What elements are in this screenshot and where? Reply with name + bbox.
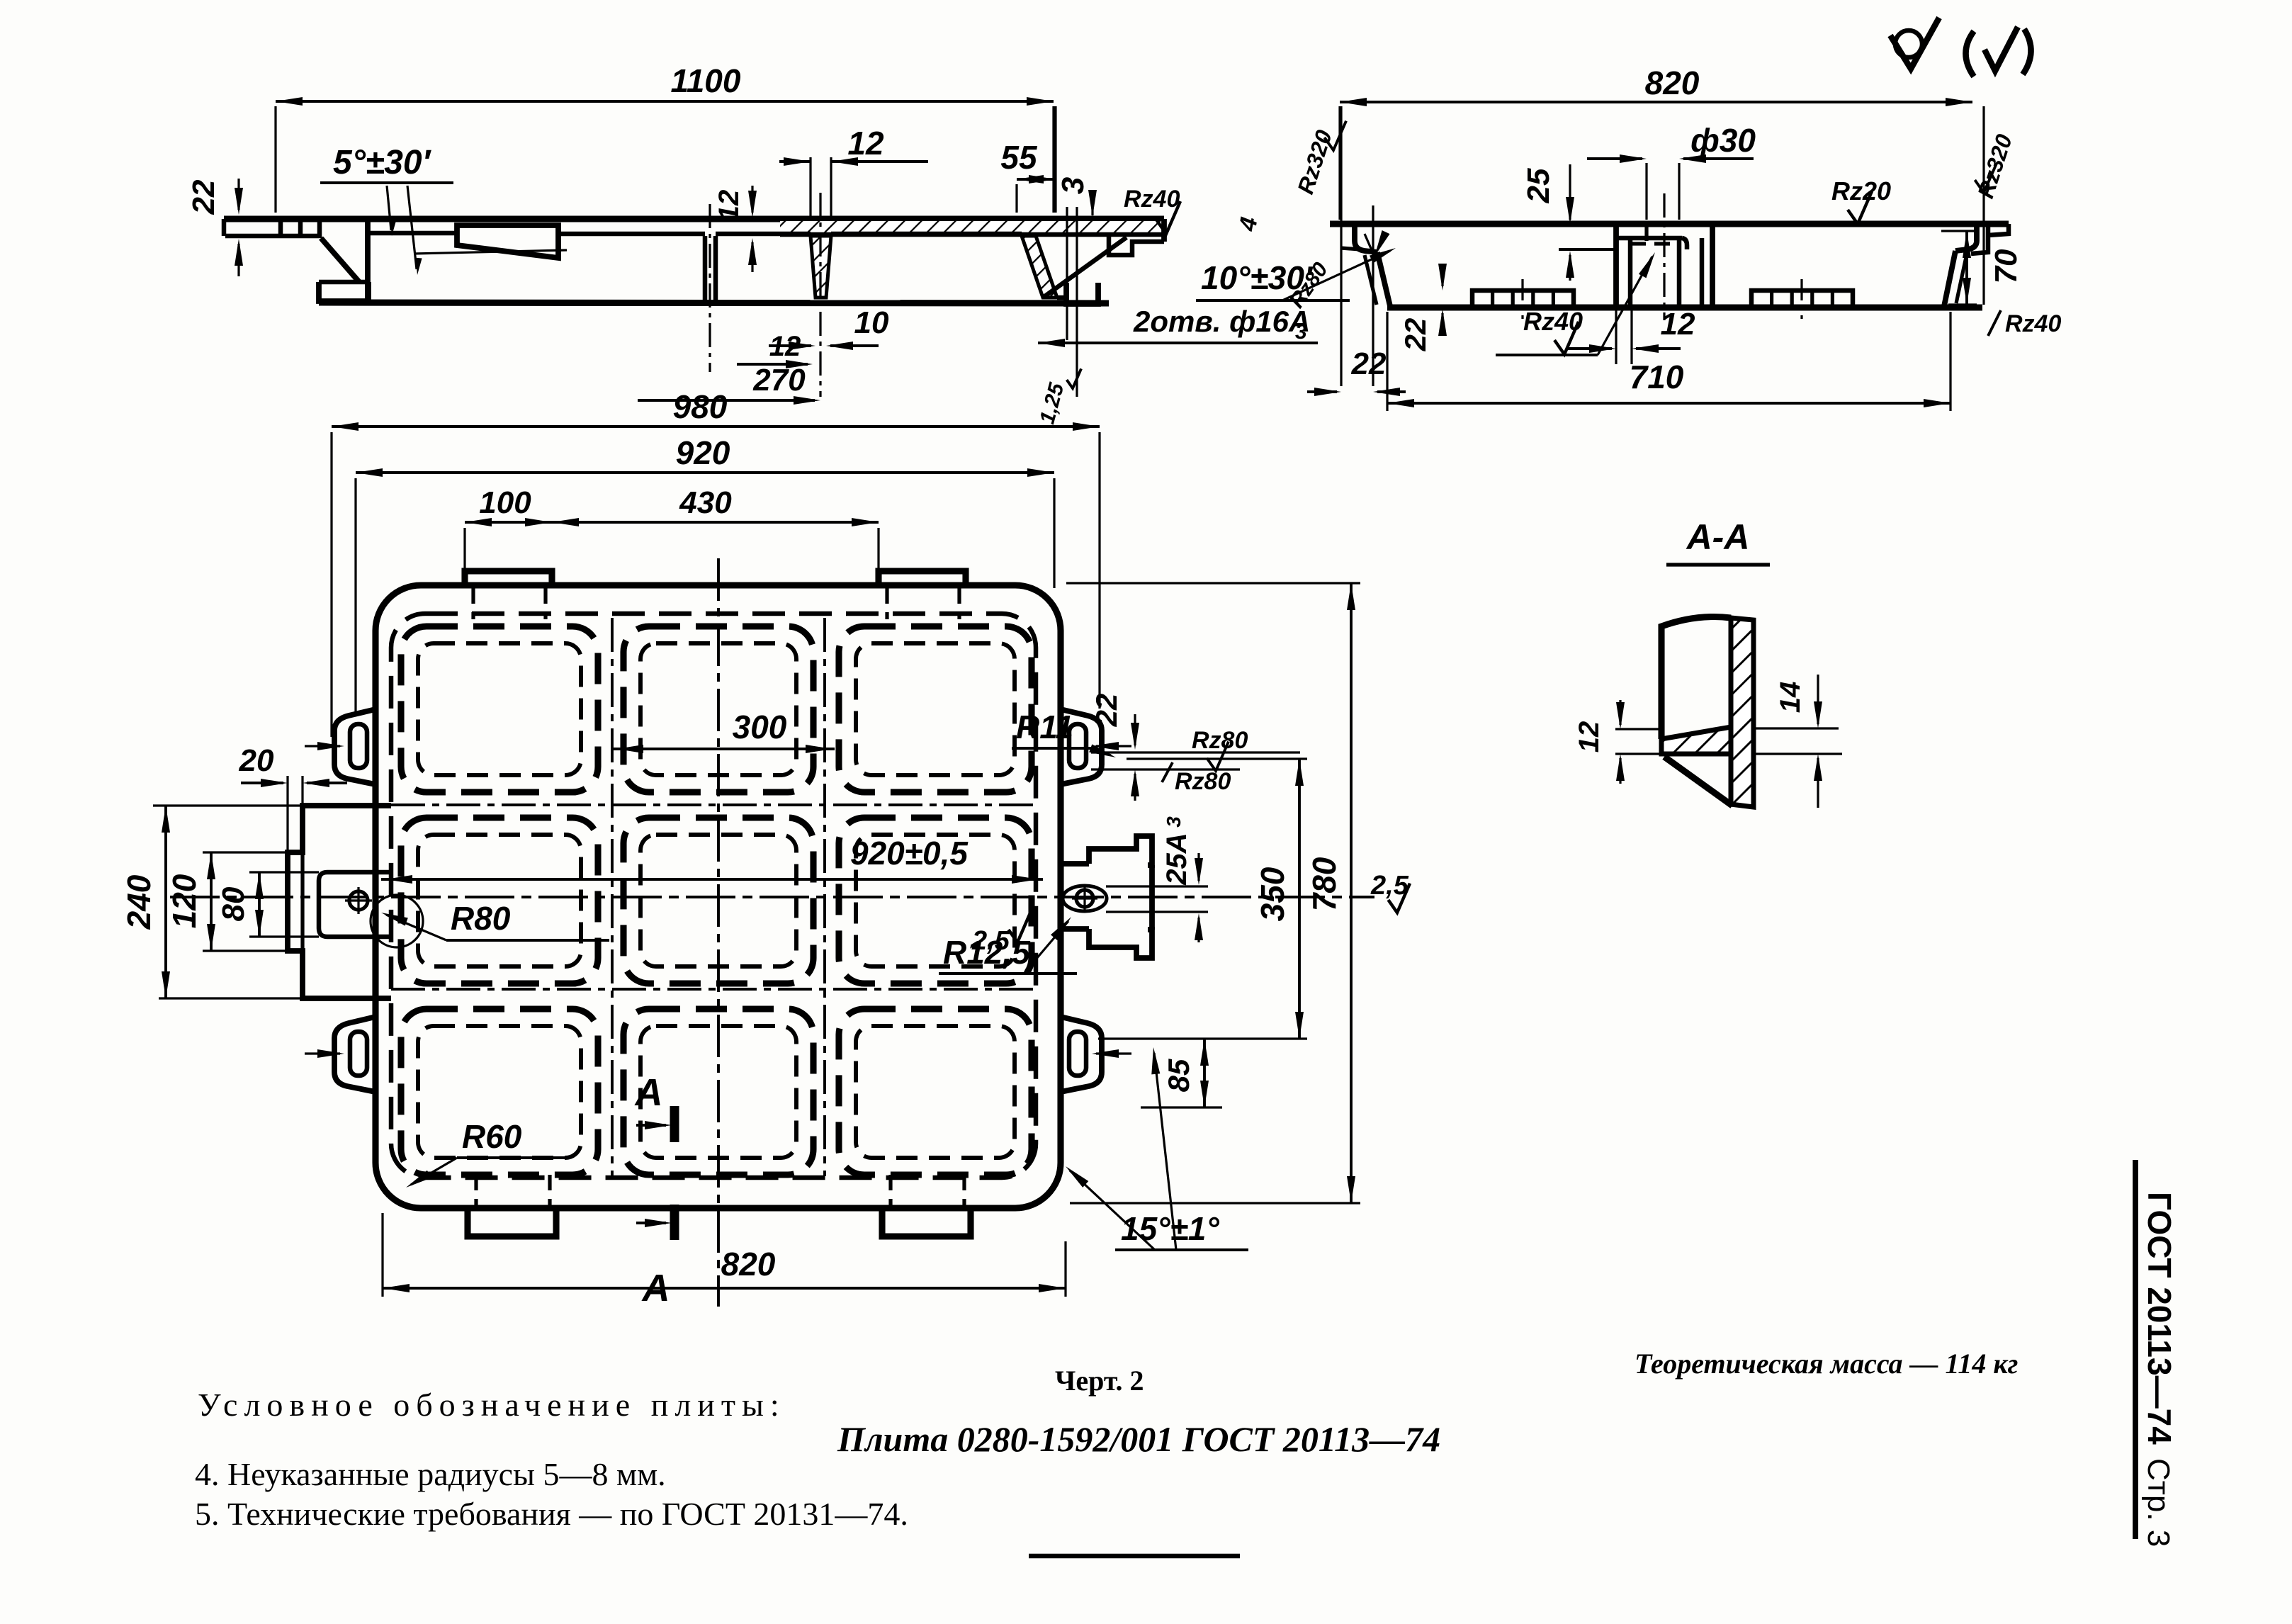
svg-text:R80: R80 bbox=[451, 900, 511, 937]
svg-text:R11: R11 bbox=[1016, 709, 1073, 745]
svg-text:780: 780 bbox=[1306, 857, 1343, 911]
svg-text:100: 100 bbox=[479, 485, 531, 520]
svg-text:5. Технические требования — п: 5. Технические требования — по ГОСТ 2013… bbox=[195, 1496, 908, 1532]
svg-text:920: 920 bbox=[676, 434, 730, 471]
svg-text:12: 12 bbox=[769, 331, 801, 362]
svg-text:3: 3 bbox=[1295, 320, 1307, 344]
svg-text:85: 85 bbox=[1162, 1059, 1195, 1092]
svg-text:Теоретическая масса — 114 кг: Теоретическая масса — 114 кг bbox=[1635, 1348, 2018, 1380]
svg-text:2отв. ф16А: 2отв. ф16А bbox=[1133, 305, 1310, 338]
svg-text:300: 300 bbox=[733, 709, 787, 745]
svg-text:Rz80: Rz80 bbox=[1175, 768, 1231, 795]
svg-text:Rz40: Rz40 bbox=[1124, 186, 1180, 213]
svg-text:2,5: 2,5 bbox=[971, 926, 1010, 956]
svg-text:Стр. 3: Стр. 3 bbox=[2141, 1458, 2176, 1547]
svg-text:22: 22 bbox=[186, 179, 221, 215]
svg-text:55: 55 bbox=[1000, 139, 1038, 176]
svg-text:25: 25 bbox=[1521, 168, 1556, 203]
svg-text:Rz20: Rz20 bbox=[1831, 176, 1891, 205]
svg-text:980: 980 bbox=[673, 388, 728, 425]
svg-text:22: 22 bbox=[1399, 318, 1432, 352]
svg-text:70: 70 bbox=[1989, 249, 2023, 283]
svg-text:12: 12 bbox=[713, 190, 745, 222]
svg-text:Черт. 2: Черт. 2 bbox=[1055, 1365, 1144, 1397]
svg-text:120: 120 bbox=[166, 874, 203, 928]
svg-text:22: 22 bbox=[1351, 346, 1387, 381]
svg-text:Rz40: Rz40 bbox=[2005, 310, 2061, 337]
svg-text:15°±1°: 15°±1° bbox=[1121, 1210, 1219, 1247]
svg-text:10: 10 bbox=[854, 305, 889, 340]
svg-text:1100: 1100 bbox=[671, 62, 741, 99]
svg-text:Rz80: Rz80 bbox=[1192, 727, 1248, 754]
svg-text:240: 240 bbox=[120, 874, 157, 930]
svg-text:ГОСТ 20113—74: ГОСТ 20113—74 bbox=[2141, 1192, 2178, 1445]
svg-text:350: 350 bbox=[1254, 867, 1291, 921]
svg-text:ф30: ф30 bbox=[1690, 122, 1756, 159]
svg-text:3: 3 bbox=[1163, 816, 1185, 828]
svg-text:R60: R60 bbox=[462, 1118, 522, 1155]
svg-text:14: 14 bbox=[1775, 682, 1806, 714]
svg-text:270: 270 bbox=[752, 363, 806, 397]
svg-text:20: 20 bbox=[239, 743, 274, 778]
svg-text:А: А bbox=[634, 1071, 663, 1114]
svg-text:820: 820 bbox=[1645, 64, 1700, 101]
svg-text:710: 710 bbox=[1630, 359, 1684, 395]
svg-text:4. Неуказанные радиусы 5—8 мм: 4. Неуказанные радиусы 5—8 мм. bbox=[195, 1456, 666, 1492]
svg-text:430: 430 bbox=[679, 485, 732, 520]
svg-text:5°±30′: 5°±30′ bbox=[333, 144, 432, 181]
svg-text:12: 12 bbox=[1574, 721, 1605, 753]
svg-text:25А: 25А bbox=[1161, 833, 1192, 885]
svg-text:820: 820 bbox=[721, 1246, 776, 1282]
svg-text:А-А: А-А bbox=[1686, 517, 1750, 557]
svg-text:Условное обозначение плиты:: Условное обозначение плиты: bbox=[198, 1387, 786, 1423]
svg-text:80: 80 bbox=[216, 886, 251, 921]
svg-text:12: 12 bbox=[1661, 307, 1695, 342]
svg-text:Плита 0280-1592/001 ГОСТ 20113: Плита 0280-1592/001 ГОСТ 20113—74 bbox=[837, 1419, 1440, 1459]
svg-text:3: 3 bbox=[1056, 177, 1090, 194]
svg-text:22: 22 bbox=[1090, 694, 1123, 728]
svg-text:12: 12 bbox=[847, 125, 884, 162]
svg-text:920±0,5: 920±0,5 bbox=[850, 835, 969, 872]
